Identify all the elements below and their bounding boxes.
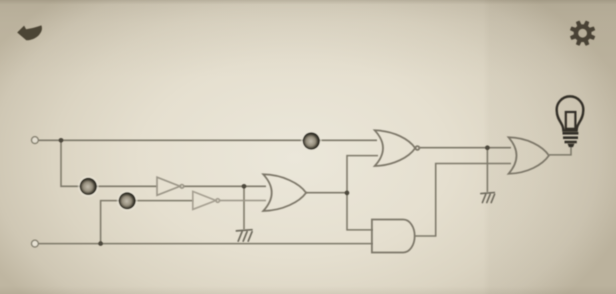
wire riser bottom rail to row2 — [101, 201, 193, 244]
background top shade — [0, 0, 616, 78]
nor-gate NOR1 — [375, 130, 420, 166]
junction node J4 — [345, 191, 350, 196]
wire NOR output — [420, 147, 512, 149]
wire riser to AND input — [347, 193, 373, 230]
or-gate OR3 — [509, 137, 549, 174]
junction node J1 — [59, 138, 64, 143]
wire top rail — [39, 139, 377, 141]
junction node J5 — [485, 145, 490, 150]
input terminal IN2 — [32, 240, 39, 247]
wire AND output to OR3 — [415, 164, 511, 237]
junction node J2 — [242, 184, 247, 189]
or-gate OR1 — [263, 174, 306, 211]
switch ball B — [118, 191, 137, 210]
background bottom shade — [0, 286, 616, 294]
switch ball C — [302, 131, 321, 150]
and-gate AND1 — [372, 220, 415, 253]
junction node J3 — [98, 241, 103, 246]
wire OR1 output — [306, 192, 347, 194]
lamp bulb — [557, 96, 584, 146]
inverter NOT1 — [157, 177, 184, 195]
ground symbol G2 — [481, 193, 495, 203]
wire bottom rail — [39, 243, 373, 245]
wire NOT1 output to OR1 — [184, 185, 267, 187]
wire riser to NOR input — [347, 156, 378, 193]
background right panel seam — [483, 0, 616, 294]
gear icon — [570, 21, 595, 46]
back arrow icon — [17, 25, 42, 40]
wire OR3 output to bulb — [549, 145, 571, 155]
wire ground tap 2 — [486, 148, 488, 193]
inverter NOT2 — [193, 191, 220, 209]
switch ball A — [79, 177, 98, 196]
wire NOT2 output to OR1 — [219, 200, 266, 202]
wire riser input1 to row1 — [61, 140, 157, 186]
input terminal IN1 — [32, 137, 39, 144]
wire ground tap 1 — [243, 186, 245, 229]
ground symbol G1 — [236, 230, 252, 242]
